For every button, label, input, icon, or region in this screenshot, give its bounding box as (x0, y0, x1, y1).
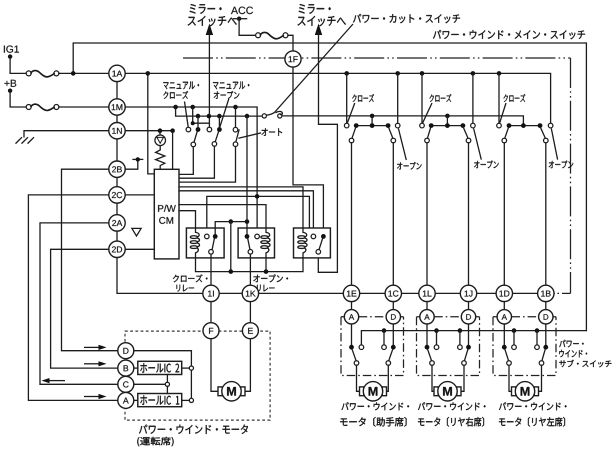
connector 1C (385, 285, 401, 301)
unit U1 A/D down to contacts (352, 324, 394, 345)
connector 1A (109, 65, 125, 81)
unit U3 wires 1x to A/D (504, 302, 546, 310)
unit U3 wires to motor (509, 365, 511, 391)
wire CM to relay1 coil (179, 211, 196, 228)
sub switch unit U3 chain boundary (493, 317, 556, 376)
group G2 blades and lower contacts (427, 128, 430, 139)
wire CM to relay3 open contact (lineB) (179, 191, 313, 234)
fuse F3 (ACC) (256, 33, 261, 38)
connector 1F (285, 51, 301, 67)
leader manual close (185, 102, 189, 128)
relay K2 coil (266, 228, 270, 258)
wire top power rail from IG1 fuse junction to right side down to sub-switch rail (73, 43, 586, 331)
wire D to hall IC feed (134, 351, 191, 366)
label ACC (231, 7, 253, 15)
wire G2 outputs down to 1L and 1J (427, 143, 469, 285)
sub switch unit U1 chain boundary (341, 317, 404, 376)
wire 2C loop to A (28, 195, 117, 401)
junction dots row2 (196, 114, 201, 119)
wire fuse to 1F (288, 35, 293, 51)
fuse F2 (+B) (26, 105, 31, 110)
unit U2 wires 1x to A/D (427, 302, 469, 310)
power cut switch contacts (262, 114, 266, 118)
connector 1N (109, 123, 125, 139)
junction dot IG1 rail (71, 71, 76, 76)
unit U3 A/D down to contacts (504, 324, 546, 345)
wire 1N row to CM (125, 130, 172, 132)
label motor unit U2 (418, 402, 486, 410)
connector 2B (109, 161, 125, 177)
LED D1 (illumination) (159, 131, 161, 135)
connector 1L (419, 285, 435, 301)
connector 2A (109, 215, 125, 231)
wire fuse to 1A (59, 72, 109, 74)
label IG1 (4, 46, 19, 53)
junction dots row1 (173, 105, 178, 110)
label +B (5, 80, 17, 87)
wire 2B loop to D (62, 169, 118, 351)
wire K2 blade to 1K (249, 254, 251, 285)
relay K3 contacts (311, 234, 316, 239)
sub rail drops to open contacts (384, 331, 537, 345)
connector F (203, 323, 219, 339)
motor unit U1 (360, 382, 387, 401)
unit U3 contacts (502, 345, 507, 350)
connector A unit U1 (344, 310, 358, 324)
wire power-cut rail across main switch middle contacts (283, 116, 523, 123)
wire 1K to E (249, 302, 251, 323)
wire 2B stub node (125, 159, 138, 169)
label power window sub switch (559, 340, 583, 348)
hall IC 1 box (138, 394, 182, 407)
connector 1J (460, 285, 476, 301)
fuse F1 (IG1) (26, 71, 31, 76)
wire 2A loop to C (40, 223, 118, 384)
wire CM to relay3 coil (lineA) (179, 187, 303, 228)
resistor R1 (156, 146, 165, 170)
relay K3 coil (303, 228, 307, 258)
connector D unit U1 (386, 310, 400, 324)
wire B to hall IC 2 (134, 367, 138, 369)
wire 1I to F (210, 302, 212, 323)
connector 1I (203, 285, 219, 301)
connector 1K (242, 285, 258, 301)
sub switch rail (361, 331, 586, 345)
connector E (242, 323, 258, 339)
wire mirror switch left, down to manual-close contact (208, 33, 210, 127)
label auto (262, 128, 283, 136)
connector A unit U2 (420, 310, 434, 324)
connector D unit U2 (461, 310, 475, 324)
ground symbol (16, 137, 35, 143)
driver motor dashed boundary box (125, 331, 270, 420)
wire 2D to P/W CM (125, 248, 154, 250)
main switch group G2 contacts (431, 125, 463, 127)
node IG1 (8, 54, 12, 58)
wire close contact down to P/W CM (179, 147, 193, 175)
label manual open (213, 82, 249, 90)
relay K1 contacts (205, 234, 210, 239)
manual close switch contacts (186, 127, 191, 132)
relay K3 blade (319, 238, 323, 249)
ECU P/W CM box (154, 169, 179, 259)
connector C (118, 376, 134, 392)
junction dots on middle rail (370, 114, 375, 119)
wires middle rail stubs to center contacts (372, 116, 447, 123)
wire K1 blade to 1I (210, 254, 212, 285)
power cut switch blade and leader to label (266, 24, 353, 115)
hall IC 2 box (138, 361, 182, 374)
wire ground to 1N (24, 131, 109, 137)
wire E to motor (246, 339, 251, 391)
connector 1B (538, 285, 554, 301)
motor M1 (driver) (218, 382, 245, 401)
unit U2 A/D down to contacts (427, 324, 469, 345)
label power window main switch (433, 30, 585, 39)
connector 1D (496, 285, 512, 301)
wire CM to relay2 coil (179, 205, 266, 228)
connector D (118, 343, 134, 359)
arrow to mirror switch (right) (315, 24, 322, 36)
wire auto switch contact feed (235, 107, 237, 128)
wire open switch contact feed (218, 116, 220, 127)
signal arrows into D,B,A and out of C (84, 346, 99, 348)
hall IC common terminal (165, 382, 169, 386)
wire close switch contact feed (197, 116, 199, 127)
wire F to motor (211, 339, 217, 391)
connector 1M (109, 99, 125, 115)
arrow to mirror switch (left) (206, 24, 213, 36)
wire A to hall IC 1 (134, 399, 138, 401)
wire connector column verticals (116, 82, 118, 242)
wire 1A rail across main switch (125, 73, 550, 123)
leader manual open (220, 99, 229, 127)
connector D unit U3 (539, 310, 553, 324)
wire open contact down to P/W CM (179, 146, 214, 178)
motor unit U3 (512, 382, 539, 401)
chain line main switch boundary top (183, 57, 571, 59)
relay K2 blade (248, 238, 250, 249)
wires 1A rail drops to outer contacts (347, 73, 499, 123)
unit U1 wires to motor (357, 365, 359, 391)
hall IC right terminals (189, 366, 193, 370)
unit U3 blades (505, 349, 509, 361)
label power window motor (driver) (139, 425, 248, 434)
connector 1E (343, 285, 359, 301)
wire 2D loop to B (51, 249, 118, 368)
wire relay1 open contact link line (lineC) (207, 196, 310, 234)
wire G1 outputs down to 1E and 1C (352, 143, 394, 285)
main switch group G3 contacts (509, 125, 540, 127)
symbol option triangle at 2A (132, 228, 141, 236)
wire 1A branch to CM left (148, 73, 155, 173)
chain line main switch boundary right side down to 1B (570, 58, 572, 293)
unit U2 contacts (425, 345, 430, 350)
sub switch unit U2 chain boundary (417, 317, 480, 376)
node +B (8, 89, 12, 93)
connector A unit U3 (497, 310, 511, 324)
leader auto (238, 133, 261, 138)
connector B (118, 360, 134, 376)
wire G3 outputs down to 1D and 1B (504, 143, 546, 285)
group G3 blades and lower contacts (505, 128, 509, 139)
relay K1 coil (196, 228, 200, 258)
main switch group G1 contacts (356, 125, 388, 127)
unit U1 wires 1x to A/D (352, 302, 394, 310)
coil return rail under relays (196, 258, 304, 272)
label close relay (173, 274, 208, 282)
node ACC (237, 17, 241, 21)
relay close-relay K1 box (186, 228, 224, 258)
relay K1 blade (212, 238, 214, 249)
wire tie line down to coil return rail (230, 222, 232, 272)
motor unit U2 (434, 382, 461, 401)
connector 2C (109, 187, 125, 203)
unit U2 wires to motor (432, 365, 433, 391)
wire fuse to 1M (59, 106, 109, 108)
unit U1 blades (352, 349, 356, 361)
wire +B to fuse (10, 91, 26, 107)
unit U1 contacts (349, 345, 354, 350)
relay open-relay K2 box (238, 228, 274, 258)
label to mirror switch (right) (299, 4, 331, 14)
wire IG1 to fuse (10, 57, 26, 74)
relay K2 contacts (245, 234, 250, 239)
label to mirror switch (left) (190, 4, 222, 14)
junction dots on 1A rail (344, 71, 349, 76)
wire K1 filled contact to tie line (215, 222, 247, 235)
wire K2 coil return (265, 258, 267, 272)
wire row2 (power cut feed) (176, 107, 262, 116)
label motor unit U3 (499, 402, 567, 410)
labels close x3 with leaders (352, 94, 374, 102)
unit U2 blades (428, 349, 432, 361)
wire 1F to close relay area and relay3 contact (293, 67, 323, 234)
manual open switch contact (217, 127, 222, 132)
wire row2 feed down to K2 filled contact (246, 116, 248, 234)
wire auto contact down to P/W CM (179, 147, 236, 183)
labels open x3 with leaders (397, 162, 421, 170)
manual open blade and lower contact (215, 131, 218, 141)
wire 1M row (row1) across driver switch to close relay feed (125, 107, 257, 234)
wire 1N branch into CM top (172, 131, 174, 170)
relay K3 box (294, 228, 331, 258)
wire ACC to fuse (239, 19, 256, 36)
wire C to hall IC common (134, 383, 165, 385)
connector 2D (109, 241, 125, 257)
manual close blade and lower contact (194, 131, 197, 142)
wire 2C to P/W CM (125, 194, 154, 196)
label power cut switch (353, 14, 460, 23)
label manual close (163, 82, 199, 90)
label open relay (253, 274, 288, 282)
label motor unit U1 (342, 402, 410, 410)
wire 2D down to 1I/1K/sub-switch row (117, 258, 554, 294)
group G1 blades and lower contacts (352, 128, 356, 139)
connector A (118, 392, 134, 408)
auto switch contacts and blade (233, 127, 238, 132)
wire row1 branch via link to mirror contact (193, 107, 210, 123)
wire mirror switch right, down to rail and relay3 blade zigzag (318, 33, 320, 116)
